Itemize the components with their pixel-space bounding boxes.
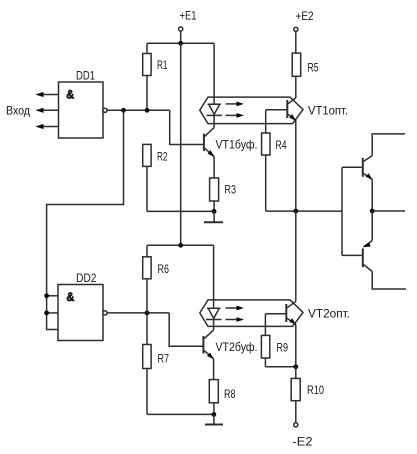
wire DD2 input stub 2 [47, 312, 58, 314]
wire base rail [341, 167, 343, 255]
svg-text:VT2опт.: VT2опт. [308, 307, 350, 321]
resistor R10 [291, 367, 324, 423]
svg-text:R8: R8 [224, 387, 236, 401]
wire top rail channel 1 [147, 42, 214, 44]
terminal +E1 [179, 9, 197, 32]
terminal -E2 [293, 423, 313, 449]
wire DD1 input 2 [36, 108, 59, 113]
node DD2 input 1 [44, 293, 49, 298]
svg-text:VT1буф.: VT1буф. [216, 138, 258, 152]
wire feedback DD1 to DD2 [47, 110, 124, 329]
wire DD2 input stub 1 [47, 295, 58, 297]
wire DD1 input 3 [36, 124, 59, 129]
light arrow 2a [226, 306, 245, 311]
svg-text:R7: R7 [158, 352, 170, 366]
resistor R5 [292, 9, 319, 98]
svg-text:R3: R3 [225, 183, 237, 197]
wire main E1 rail [180, 43, 182, 245]
LED D1 [207, 104, 223, 115]
node R3 ground [212, 209, 217, 214]
node emitter R10 [293, 364, 298, 369]
svg-text:&: & [66, 88, 74, 102]
svg-text:R1: R1 [157, 58, 168, 72]
wire +E1 drop [180, 31, 182, 43]
svg-text:+E1: +E1 [180, 9, 197, 23]
wire rail channel 2 [147, 244, 214, 246]
gate DD2 [58, 271, 107, 341]
wire ground line channel 1 [147, 210, 214, 212]
wire VT2buf base drop [169, 313, 202, 346]
resistor R4 [262, 110, 287, 211]
svg-text:R2: R2 [157, 150, 168, 164]
phototransistor VT2opt [265, 301, 350, 325]
node emitter junction [293, 209, 298, 214]
node DD1 out / feedback [121, 108, 126, 113]
optocoupler U1 outline [200, 97, 303, 124]
wire output node [266, 210, 342, 212]
resistor R2 [143, 144, 168, 211]
transistor VT3 output NPN [342, 134, 405, 211]
resistor R8 [209, 380, 235, 415]
light arrow 1a [226, 102, 245, 107]
svg-text:R9: R9 [277, 341, 289, 355]
transistor VT4 output PNP [342, 211, 406, 289]
transistor VT2buf [203, 320, 257, 380]
svg-text:VT2буф.: VT2буф. [216, 340, 258, 354]
resistor R3 [210, 178, 237, 211]
svg-text:DD1: DD1 [76, 69, 95, 83]
resistor R9 [261, 314, 288, 367]
svg-text:R4: R4 [276, 138, 287, 152]
node R8 ground [212, 412, 217, 417]
svg-text:&: & [66, 290, 74, 304]
node DD2 input 2 [44, 311, 49, 316]
svg-text:R5: R5 [308, 61, 319, 75]
light arrow 1b [226, 113, 245, 118]
svg-text:VT1опт.: VT1опт. [308, 104, 348, 118]
optocoupler U2 outline [200, 300, 303, 327]
wire VT2opt emitter [295, 324, 297, 366]
resistor R6 [143, 245, 170, 313]
LED D2 [206, 308, 222, 319]
wire DD1 output [107, 109, 170, 111]
node output emitters [370, 209, 375, 214]
node +E1 junction [178, 41, 183, 46]
wire DD2 output [107, 312, 169, 314]
node E1 rail end [178, 243, 183, 248]
phototransistor VT1opt [266, 98, 348, 121]
svg-text:R6: R6 [158, 262, 170, 276]
light arrow 2b [226, 317, 245, 322]
wire output stub middle [372, 210, 405, 212]
resistor R1 [143, 43, 168, 110]
wire VT2opt collector from node [295, 211, 297, 301]
svg-text:DD2: DD2 [76, 271, 97, 285]
wire ground line channel 2 [147, 413, 214, 415]
svg-text:Вход: Вход [6, 104, 30, 118]
ground channel 1 [204, 211, 223, 222]
svg-text:R10: R10 [307, 383, 324, 397]
wire LED2 anode [213, 245, 215, 308]
transistor VT1buf [204, 115, 258, 178]
svg-text:+E2: +E2 [296, 9, 314, 23]
svg-text:-E2: -E2 [293, 435, 313, 449]
wire DD1 input 1 [36, 92, 59, 97]
wire R9 to emitter node [265, 366, 295, 368]
node DD1 out / R1 R2 [145, 108, 150, 113]
node R6 R7 DD2 [145, 311, 150, 316]
ground channel 2 [205, 414, 223, 424]
gate DD1 [59, 69, 108, 139]
wire LED1 anode [213, 43, 215, 104]
resistor R7 [143, 313, 170, 415]
wire VT1opt emitter to node [295, 120, 297, 211]
wire VT1buf base drop [170, 110, 203, 144]
